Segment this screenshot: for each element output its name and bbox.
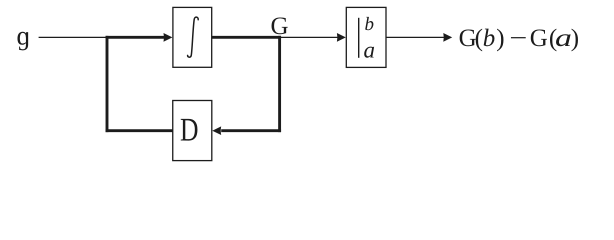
wire integrator output to junction B (thick) <box>212 36 281 39</box>
svg-text:(: ( <box>475 25 483 52</box>
svg-text:D: D <box>180 113 199 149</box>
wire D output to bottom left corner (thick) <box>106 129 173 132</box>
op block U2: evaluation box <box>346 7 386 67</box>
arrowhead into integrator <box>164 33 173 42</box>
svg-text:b: b <box>483 25 496 52</box>
wire bottom left up to junction A (thick, left side of feedback loop) <box>106 36 109 132</box>
svg-text:b: b <box>365 14 375 35</box>
arrowhead into D block <box>212 126 221 135</box>
svg-text:G: G <box>530 25 548 52</box>
evaluation bar inside U2 <box>358 18 360 58</box>
wire junction B down (thick, right side of feedback loop) <box>278 36 281 132</box>
arrowhead at output <box>443 33 452 42</box>
svg-text:): ) <box>496 25 504 52</box>
arrowhead into evaluation block <box>337 33 346 42</box>
integral sign inside U1 <box>188 17 199 57</box>
op block U3: D (derivative) box <box>173 101 212 161</box>
svg-text:a: a <box>555 25 572 52</box>
wire g to junction A (thin) <box>39 36 107 38</box>
op block U1: integrator box <box>173 7 212 67</box>
svg-text:): ) <box>571 25 579 52</box>
svg-text:−: − <box>509 25 527 52</box>
wire evaluation output (thin) <box>386 36 445 38</box>
wire junction A to integrator input (thick) <box>106 36 165 39</box>
svg-text:ɡ: ɡ <box>17 21 31 51</box>
svg-text:a: a <box>364 38 376 63</box>
wire bottom right to D input (thick) <box>221 129 281 132</box>
wire junction B to evaluation block (thin) <box>280 36 338 38</box>
